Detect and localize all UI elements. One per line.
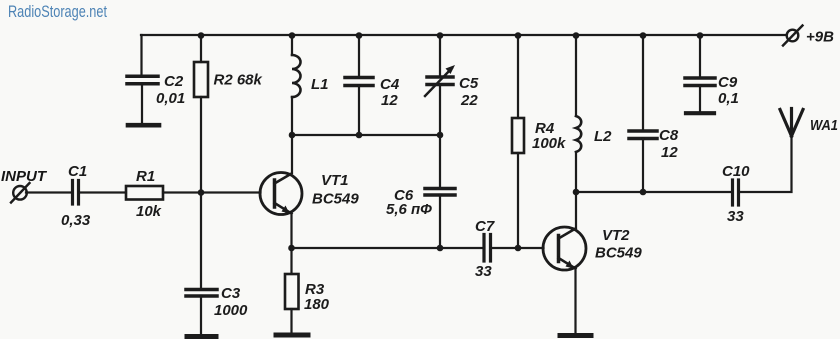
node C5 top — [437, 32, 444, 39]
variable capacitor C5 — [425, 35, 455, 135]
svg-text:R2 68k: R2 68k — [214, 72, 263, 89]
svg-text:INPUT: INPUT — [1, 168, 48, 185]
svg-text:BC549: BC549 — [312, 191, 359, 208]
node C9 top — [697, 32, 704, 39]
svg-text:22: 22 — [460, 92, 478, 109]
node R2 top — [198, 32, 205, 39]
svg-text:100k: 100k — [532, 135, 566, 152]
node C6 bottom — [437, 245, 444, 252]
svg-text:1000: 1000 — [214, 302, 248, 319]
inductor L2 — [576, 35, 581, 228]
transistor VT1 — [260, 173, 302, 215]
node C8 bottom — [640, 189, 647, 196]
ground under C3 — [187, 334, 216, 339]
svg-text:12: 12 — [661, 144, 678, 161]
wire VT2 emitter — [574, 269, 576, 334]
transistor VT2 — [543, 227, 586, 270]
node C4 top — [356, 32, 363, 39]
node L2 top — [573, 32, 580, 39]
svg-text:C4: C4 — [380, 76, 400, 93]
wire C5 to C6 — [439, 135, 441, 188]
node L1 bottom — [289, 132, 296, 139]
wire +9V top rail — [141, 34, 786, 36]
wire VT1 collector — [291, 135, 293, 173]
svg-text:L1: L1 — [311, 76, 329, 93]
wire R1 to VT1 base — [163, 191, 261, 193]
wire output bus L2 to C10 — [576, 191, 731, 193]
svg-text:0,33: 0,33 — [61, 212, 91, 229]
resistor R3 — [285, 248, 299, 333]
wire C1 to R1 — [80, 191, 126, 193]
capacitor C7 — [484, 235, 491, 262]
node C8 top — [640, 32, 647, 39]
antenna WA1 — [780, 109, 803, 137]
svg-text:12: 12 — [381, 92, 398, 109]
capacitor C3 — [186, 193, 217, 335]
node VT2 collector / L2 bottom — [573, 189, 580, 196]
wire input to C1 — [26, 191, 71, 193]
svg-text:RadioStorage.net: RadioStorage.net — [8, 3, 107, 21]
svg-text:VT2: VT2 — [602, 227, 630, 244]
svg-text:L2: L2 — [594, 128, 612, 145]
svg-text:BC549: BC549 — [595, 245, 642, 262]
svg-text:C10: C10 — [722, 163, 750, 180]
resistor R2 — [194, 35, 208, 191]
terminal +9V — [783, 26, 803, 46]
svg-text:180: 180 — [304, 296, 330, 313]
capacitor C4 — [345, 35, 373, 135]
svg-text:10k: 10k — [136, 203, 162, 220]
svg-text:33: 33 — [475, 263, 492, 280]
node R4 top — [515, 32, 522, 39]
wire C7 to VT2 base — [492, 247, 544, 249]
ground under VT2 — [560, 333, 591, 338]
svg-text:0,1: 0,1 — [718, 90, 739, 107]
terminal input — [11, 183, 30, 203]
resistor R4 — [512, 35, 524, 248]
capacitor C9 — [685, 35, 715, 111]
svg-text:WA1: WA1 — [810, 117, 838, 134]
inductor L1 — [292, 35, 301, 135]
node base VT1 / R2 / C3 — [198, 189, 205, 196]
node L1 top — [289, 32, 296, 39]
svg-text:R1: R1 — [136, 168, 155, 185]
capacitor C6 — [425, 189, 455, 249]
wire L1/C4/C5 bottom bus — [292, 134, 440, 136]
svg-text:C2: C2 — [164, 73, 184, 90]
logo RadioStorage.net — [8, 3, 107, 21]
svg-text:C3: C3 — [221, 285, 241, 302]
node R4 bottom — [515, 245, 522, 252]
capacitor C1 — [73, 181, 79, 205]
ground under C2 — [128, 123, 159, 128]
ground under C9 — [686, 111, 714, 115]
svg-text:0,01: 0,01 — [156, 90, 185, 107]
svg-text:33: 33 — [727, 208, 744, 225]
svg-text:C9: C9 — [718, 74, 738, 91]
node C5 bottom — [437, 132, 444, 139]
svg-text:C1: C1 — [68, 163, 87, 180]
wire emitter bus to C7 — [292, 247, 483, 249]
capacitor C10 — [733, 180, 739, 205]
svg-text:VT1: VT1 — [321, 172, 349, 189]
node C4 bottom — [356, 132, 363, 139]
svg-text:C5: C5 — [459, 75, 479, 92]
svg-text:5,6 пФ: 5,6 пФ — [386, 201, 432, 218]
node VT1 emitter / R3 — [288, 245, 295, 252]
resistor R1 — [126, 186, 163, 200]
svg-text:C7: C7 — [475, 218, 495, 235]
capacitor C2 — [127, 35, 158, 123]
svg-text:C8: C8 — [659, 127, 679, 144]
capacitor C8 — [629, 35, 657, 192]
ground under R3 — [276, 333, 308, 338]
svg-text:+9В: +9В — [806, 29, 834, 46]
wire VT1 emitter — [290, 214, 292, 249]
wire C10 to antenna — [740, 136, 792, 192]
